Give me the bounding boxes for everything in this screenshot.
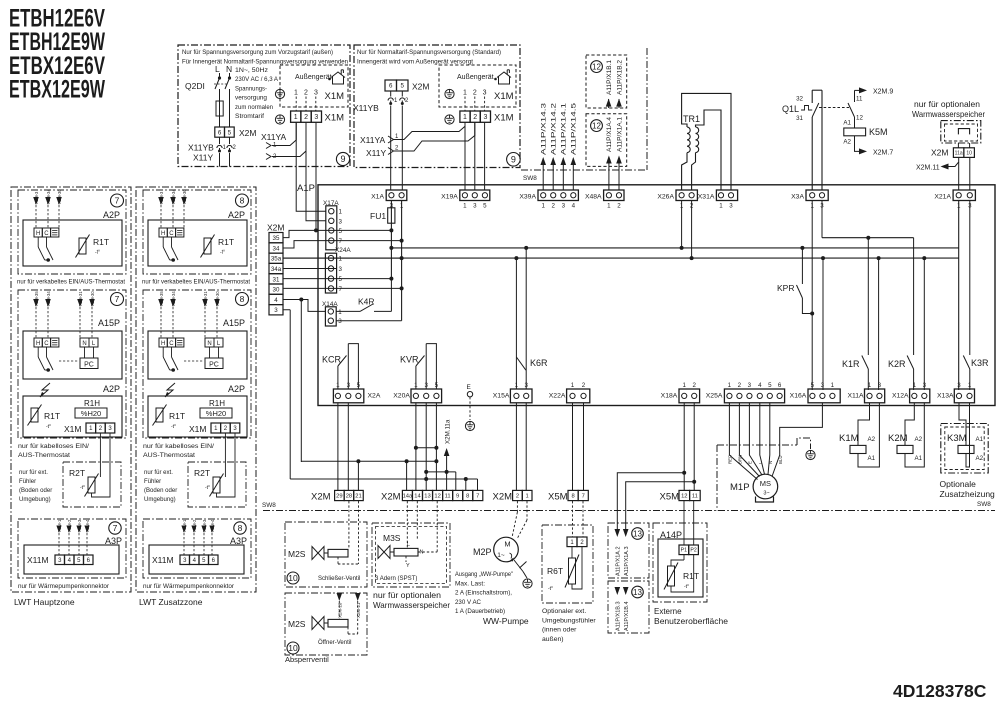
svg-text:3: 3: [314, 114, 318, 121]
svg-text:Nur für Spannungsversorgung zu: Nur für Spannungsversorgung zum Vorzugst…: [182, 49, 333, 56]
svg-text:Außengerät: Außengerät: [295, 74, 332, 81]
svg-text:-t°: -t°: [684, 584, 689, 590]
svg-text:35a: 35a: [271, 256, 282, 263]
svg-text:ETBX12E9W: ETBX12E9W: [9, 76, 105, 104]
svg-text:11: 11: [445, 494, 451, 500]
svg-text:A1: A1: [868, 455, 876, 462]
svg-text:PC: PC: [209, 362, 219, 369]
svg-text:R1T: R1T: [683, 571, 699, 581]
svg-text:C: C: [44, 231, 49, 237]
svg-text:A2P: A2P: [228, 384, 245, 394]
svg-text:A2: A2: [976, 455, 984, 462]
svg-text:X15A: X15A: [493, 393, 510, 400]
svg-text:13: 13: [424, 494, 430, 500]
svg-text:9: 9: [511, 155, 516, 165]
svg-text:K1R: K1R: [842, 359, 860, 369]
svg-text:R1T: R1T: [218, 237, 234, 247]
svg-text:X2M-3: X2M-3: [34, 191, 39, 204]
svg-text:(Boden oder: (Boden oder: [144, 488, 177, 494]
svg-text:A2P: A2P: [103, 210, 120, 220]
svg-text:X11YB: X11YB: [188, 143, 214, 153]
svg-text:A2: A2: [868, 436, 876, 443]
svg-text:11: 11: [692, 494, 698, 500]
svg-text:4: 4: [274, 297, 278, 304]
svg-text:A11P/X1A.1: A11P/X1A.1: [616, 116, 623, 152]
svg-text:%H20: %H20: [81, 409, 101, 418]
svg-text:3: 3: [347, 382, 351, 389]
svg-text:7: 7: [476, 494, 479, 500]
svg-text:X26A: X26A: [657, 194, 674, 201]
svg-text:2: 2: [516, 494, 519, 500]
svg-text:%H20: %H20: [206, 409, 226, 418]
svg-text:N: N: [207, 341, 211, 347]
svg-text:1: 1: [515, 382, 519, 389]
svg-text:230V AC / 6,3 A: 230V AC / 6,3 A: [235, 76, 279, 83]
svg-text:28: 28: [346, 494, 352, 500]
svg-text:-t°: -t°: [220, 250, 225, 256]
svg-text:Max. Last:: Max. Last:: [455, 580, 485, 587]
svg-text:A15P: A15P: [223, 318, 245, 328]
svg-text:A11P/X14.2: A11P/X14.2: [551, 102, 558, 155]
svg-text:34: 34: [273, 245, 280, 252]
svg-text:X20A: X20A: [393, 393, 410, 400]
svg-text:8: 8: [240, 294, 245, 304]
svg-text:Warmwasserspeicher: Warmwasserspeicher: [373, 600, 450, 610]
svg-text:KVR: KVR: [400, 355, 419, 365]
svg-text:X19A: X19A: [441, 194, 458, 201]
svg-text:BLU: BLU: [778, 455, 783, 464]
svg-text:X2M-30: X2M-30: [90, 291, 95, 306]
svg-text:R1T: R1T: [44, 411, 60, 421]
svg-text:K1M: K1M: [839, 433, 859, 444]
svg-text:3: 3: [878, 382, 882, 389]
svg-text:7: 7: [339, 238, 343, 245]
svg-text:H: H: [161, 341, 165, 347]
svg-text:31: 31: [796, 115, 803, 122]
svg-text:R1T: R1T: [169, 411, 185, 421]
svg-text:nur für Wärmepumpenkonnektor: nur für Wärmepumpenkonnektor: [18, 584, 109, 590]
svg-text:1 A (Dauerbetrieb): 1 A (Dauerbetrieb): [455, 608, 505, 615]
svg-text:N: N: [82, 341, 86, 347]
svg-text:X1M: X1M: [494, 91, 514, 102]
svg-text:13: 13: [633, 529, 642, 538]
svg-text:12: 12: [434, 494, 440, 500]
svg-text:4: 4: [572, 203, 576, 210]
svg-text:M: M: [504, 540, 510, 549]
svg-text:10: 10: [288, 643, 298, 653]
svg-text:12: 12: [592, 62, 601, 71]
svg-text:3: 3: [483, 90, 487, 97]
svg-text:1: 1: [339, 256, 343, 263]
svg-text:3: 3: [729, 203, 733, 210]
svg-text:2: 2: [304, 114, 308, 121]
svg-text:X1M: X1M: [325, 91, 345, 102]
svg-text:6: 6: [778, 382, 782, 389]
svg-text:R2T: R2T: [194, 468, 210, 478]
svg-text:X2M-30: X2M-30: [57, 189, 62, 204]
svg-text:X2M-1: X2M-1: [57, 519, 62, 532]
svg-text:X11YB: X11YB: [353, 103, 379, 113]
svg-text:X2M: X2M: [412, 82, 429, 92]
svg-text:2: 2: [473, 114, 477, 121]
svg-text:X2M-3: X2M-3: [77, 519, 82, 532]
svg-text:X2M: X2M: [931, 148, 948, 158]
svg-text:nur für verkabeltes EIN/AUS-Th: nur für verkabeltes EIN/AUS-Thermostat: [142, 280, 250, 286]
svg-text:2 A (Einschaltstrom),: 2 A (Einschaltstrom),: [455, 590, 512, 597]
svg-text:R1T: R1T: [93, 237, 109, 247]
svg-text:X2M-1: X2M-1: [182, 519, 187, 532]
svg-text:A11P/X1A.3: A11P/X1A.3: [624, 546, 630, 576]
svg-text:5: 5: [768, 382, 772, 389]
svg-text:8: 8: [240, 196, 245, 206]
svg-text:X21A: X21A: [934, 194, 951, 201]
svg-text:1: 1: [968, 382, 972, 389]
svg-text:versorgung: versorgung: [235, 95, 267, 102]
svg-text:nur für ext.: nur für ext.: [19, 470, 48, 476]
svg-text:X16A: X16A: [790, 393, 807, 400]
svg-text:A11P/X1B.2: A11P/X1B.2: [616, 59, 623, 95]
svg-text:X1M: X1M: [494, 113, 514, 124]
svg-text:1: 1: [526, 494, 529, 500]
svg-text:Absperrventil: Absperrventil: [285, 655, 329, 664]
svg-text:X3A: X3A: [791, 194, 804, 201]
svg-text:14a: 14a: [403, 494, 413, 500]
svg-text:E: E: [748, 461, 753, 464]
svg-text:Umgebung): Umgebung): [19, 497, 51, 503]
svg-text:1~: 1~: [497, 552, 505, 559]
svg-text:nur für optionalen: nur für optionalen: [914, 99, 980, 109]
svg-text:X2M.7: X2M.7: [873, 150, 893, 157]
svg-text:Schließer-Ventil: Schließer-Ventil: [318, 576, 360, 582]
svg-text:M3S: M3S: [383, 533, 401, 543]
svg-text:1: 1: [463, 203, 467, 210]
svg-text:1: 1: [414, 382, 418, 389]
svg-text:3: 3: [314, 90, 318, 97]
svg-text:1: 1: [831, 382, 835, 389]
svg-text:7: 7: [115, 294, 120, 304]
svg-text:X2A: X2A: [368, 393, 381, 400]
svg-text:X11YA: X11YA: [261, 132, 287, 142]
svg-text:A11P/X1B.4: A11P/X1B.4: [624, 601, 630, 631]
svg-text:3 Adern (SPST): 3 Adern (SPST): [375, 576, 417, 582]
svg-text:Umgebungsfühler: Umgebungsfühler: [542, 617, 596, 624]
svg-text:X1M: X1M: [325, 113, 345, 124]
svg-text:R1H: R1H: [209, 399, 225, 408]
svg-text:1: 1: [339, 209, 343, 216]
svg-text:A2: A2: [843, 139, 851, 146]
svg-text:K6R: K6R: [530, 358, 548, 368]
svg-text:nur für kabelloses EIN/: nur für kabelloses EIN/: [143, 444, 214, 450]
svg-text:A1: A1: [915, 455, 923, 462]
svg-text:X11M: X11M: [27, 555, 49, 565]
svg-text:nur für ext.: nur für ext.: [144, 470, 173, 476]
svg-text:2: 2: [738, 382, 742, 389]
svg-text:8: 8: [571, 494, 574, 500]
svg-text:K3M: K3M: [947, 433, 967, 444]
svg-text:RED: RED: [728, 455, 733, 464]
svg-text:2: 2: [304, 90, 308, 97]
svg-text:Ausgang „WW-Pumpe": Ausgang „WW-Pumpe": [455, 571, 513, 578]
svg-text:P1: P1: [681, 548, 687, 554]
svg-text:Stromtarif: Stromtarif: [235, 113, 264, 120]
svg-text:X2M: X2M: [493, 492, 513, 503]
svg-text:14: 14: [414, 494, 421, 500]
svg-text:X11YA: X11YA: [360, 135, 386, 145]
svg-text:5: 5: [483, 203, 487, 210]
svg-text:X2M-31: X2M-31: [203, 291, 208, 306]
svg-text:Zusatzheizung: Zusatzheizung: [940, 489, 996, 499]
svg-text:H: H: [36, 341, 40, 347]
svg-text:A1: A1: [843, 120, 851, 127]
svg-text:R2T: R2T: [69, 468, 85, 478]
svg-text:Nur für Normaltarif-Spannungsv: Nur für Normaltarif-Spannungsversorgung …: [357, 49, 501, 56]
svg-text:1: 1: [541, 203, 545, 210]
svg-text:5: 5: [339, 228, 343, 235]
svg-text:5: 5: [357, 382, 361, 389]
svg-text:4: 4: [758, 382, 762, 389]
svg-text:N: N: [226, 64, 232, 74]
svg-text:-t°: -t°: [205, 485, 210, 491]
svg-text:Spannungs-: Spannungs-: [235, 85, 267, 92]
svg-text:3: 3: [562, 203, 566, 210]
svg-text:X2M-31: X2M-31: [78, 291, 83, 306]
svg-text:X2M-3: X2M-3: [159, 191, 164, 204]
svg-text:nur für Wärmepumpenkonnektor: nur für Wärmepumpenkonnektor: [143, 584, 234, 590]
svg-text:8: 8: [466, 494, 469, 500]
svg-text:X31A: X31A: [698, 194, 715, 201]
svg-text:2: 2: [551, 203, 555, 210]
svg-text:X2M-2: X2M-2: [192, 519, 197, 532]
svg-text:X2M-21: X2M-21: [356, 602, 361, 618]
svg-text:Innengerät wird vom Außengerät: Innengerät wird vom Außengerät versorgt: [357, 59, 473, 66]
svg-text:1: 1: [336, 382, 340, 389]
svg-text:X2M: X2M: [311, 492, 331, 503]
svg-text:30: 30: [273, 287, 280, 294]
svg-text:P2: P2: [690, 548, 696, 554]
svg-text:N: N: [768, 461, 773, 464]
svg-text:X5M: X5M: [548, 492, 568, 503]
svg-text:Für Innengerät Normaltarif-Spa: Für Innengerät Normaltarif-Spannungsvers…: [182, 59, 348, 66]
svg-text:12: 12: [856, 115, 863, 122]
svg-text:KPR: KPR: [777, 283, 794, 293]
svg-text:X5M: X5M: [660, 492, 680, 503]
svg-text:5: 5: [228, 129, 232, 136]
svg-text:230 V AC: 230 V AC: [455, 599, 482, 606]
svg-text:X2M-28: X2M-28: [338, 602, 343, 618]
svg-text:12: 12: [592, 121, 601, 130]
svg-text:7: 7: [113, 523, 118, 533]
svg-text:1: 1: [338, 309, 342, 316]
svg-text:3: 3: [483, 114, 487, 121]
svg-text:-t°: -t°: [95, 250, 100, 256]
svg-text:-t°: -t°: [171, 424, 176, 430]
svg-text:TR1: TR1: [683, 114, 700, 124]
svg-text:KCR: KCR: [322, 355, 342, 365]
svg-text:1: 1: [607, 203, 611, 210]
svg-text:X11Y: X11Y: [366, 148, 386, 158]
svg-text:SW8: SW8: [523, 175, 537, 182]
svg-text:H: H: [36, 231, 40, 237]
svg-text:3: 3: [339, 218, 343, 225]
svg-text:E: E: [467, 384, 471, 391]
svg-text:X12A: X12A: [892, 393, 909, 400]
svg-text:11: 11: [856, 96, 863, 103]
svg-text:3: 3: [524, 382, 528, 389]
svg-text:K3R: K3R: [971, 358, 989, 368]
svg-text:1: 1: [682, 382, 686, 389]
svg-text:Externe: Externe: [654, 607, 682, 616]
svg-text:1: 1: [868, 382, 872, 389]
svg-text:A2: A2: [915, 436, 923, 443]
svg-text:SW8: SW8: [977, 501, 991, 508]
svg-text:X11Y: X11Y: [193, 153, 213, 163]
svg-text:4D128378C: 4D128378C: [893, 681, 987, 701]
svg-text:5: 5: [435, 382, 439, 389]
svg-text:M2P: M2P: [473, 547, 492, 557]
svg-text:3: 3: [473, 203, 477, 210]
svg-text:3~: 3~: [763, 491, 769, 497]
svg-text:LWT Zusatzzone: LWT Zusatzzone: [139, 597, 203, 607]
svg-text:A11P/X14.5: A11P/X14.5: [571, 102, 578, 155]
svg-text:C: C: [169, 341, 174, 347]
svg-text:29: 29: [336, 494, 342, 500]
svg-text:X2M-35: X2M-35: [34, 291, 39, 306]
svg-text:H: H: [161, 231, 165, 237]
svg-text:A2P: A2P: [103, 384, 120, 394]
svg-text:-t°: -t°: [46, 424, 51, 430]
svg-text:M1P: M1P: [730, 482, 750, 493]
svg-text:A11P/X1A.4: A11P/X1A.4: [606, 116, 613, 152]
svg-text:3: 3: [821, 382, 825, 389]
svg-text:X2M-3: X2M-3: [202, 519, 207, 532]
svg-text:1: 1: [294, 114, 298, 121]
svg-text:K2R: K2R: [888, 359, 906, 369]
svg-text:X2M-35: X2M-35: [159, 291, 164, 306]
svg-text:L: L: [215, 64, 220, 74]
svg-text:A11P/X1B.3: A11P/X1B.3: [616, 601, 622, 631]
svg-text:8: 8: [238, 523, 243, 533]
svg-text:5: 5: [401, 83, 405, 90]
svg-text:Umgebung): Umgebung): [144, 497, 176, 503]
svg-text:10: 10: [966, 150, 972, 156]
svg-text:A1: A1: [976, 436, 984, 443]
svg-text:6: 6: [218, 129, 222, 136]
svg-text:A2P: A2P: [228, 210, 245, 220]
svg-text:Optionaler ext.: Optionaler ext.: [542, 608, 586, 615]
svg-text:Q2DI: Q2DI: [185, 81, 205, 91]
svg-text:außen): außen): [542, 636, 564, 643]
svg-text:X2M-30: X2M-30: [215, 291, 220, 306]
svg-text:X39A: X39A: [519, 194, 536, 201]
svg-text:nur für verkabeltes EIN/AUS-Th: nur für verkabeltes EIN/AUS-Thermostat: [17, 280, 125, 286]
svg-text:2: 2: [692, 382, 696, 389]
svg-text:X1A: X1A: [371, 194, 384, 201]
svg-text:X11M: X11M: [152, 555, 174, 565]
svg-text:3: 3: [748, 382, 752, 389]
svg-text:2: 2: [582, 382, 586, 389]
svg-text:Warmwasserspeicher: Warmwasserspeicher: [912, 109, 985, 119]
svg-text:5: 5: [339, 276, 343, 283]
svg-text:7: 7: [582, 494, 585, 500]
svg-text:X24A: X24A: [335, 247, 351, 254]
svg-text:32: 32: [796, 96, 803, 103]
svg-text:9: 9: [456, 494, 459, 500]
svg-text:nur für kabelloses EIN/: nur für kabelloses EIN/: [18, 444, 89, 450]
svg-text:-t°: -t°: [80, 485, 85, 491]
svg-text:SW8: SW8: [262, 502, 276, 509]
svg-text:Optionale: Optionale: [940, 479, 977, 489]
svg-text:35: 35: [273, 235, 280, 242]
svg-text:C: C: [169, 231, 174, 237]
svg-text:3: 3: [923, 382, 927, 389]
svg-text:12: 12: [681, 494, 687, 500]
svg-text:R6T: R6T: [547, 566, 563, 576]
svg-text:9: 9: [340, 154, 345, 164]
svg-text:MS: MS: [760, 479, 771, 488]
svg-text:X2M-4: X2M-4: [210, 519, 215, 532]
svg-text:X18A: X18A: [661, 393, 678, 400]
svg-text:WW-Pumpe: WW-Pumpe: [483, 616, 529, 626]
svg-text:X2M-30: X2M-30: [182, 189, 187, 204]
svg-text:1: 1: [294, 90, 298, 97]
svg-text:X2M.11: X2M.11: [916, 165, 940, 172]
svg-text:AUS-Thermostat: AUS-Thermostat: [143, 453, 195, 459]
svg-text:BRN: BRN: [738, 455, 743, 464]
svg-text:Öffner-Ventil: Öffner-Ventil: [318, 639, 352, 646]
svg-text:A11P/X1A.2: A11P/X1A.2: [616, 546, 622, 576]
svg-text:zum normalen: zum normalen: [235, 104, 273, 111]
svg-text:X2M: X2M: [267, 223, 284, 233]
svg-text:7: 7: [339, 286, 343, 293]
svg-text:X2M-2: X2M-2: [67, 519, 72, 532]
svg-text:6: 6: [389, 83, 393, 90]
svg-text:X2M: X2M: [239, 128, 256, 138]
svg-text:1: 1: [719, 203, 723, 210]
svg-text:Benutzeroberfläche: Benutzeroberfläche: [654, 617, 729, 626]
svg-text:1: 1: [728, 382, 732, 389]
svg-text:A11P/X14.3: A11P/X14.3: [541, 102, 548, 155]
svg-text:Y: Y: [406, 563, 410, 569]
svg-text:1N~, 50Hz: 1N~, 50Hz: [235, 67, 268, 74]
svg-text:X1M: X1M: [64, 424, 81, 434]
svg-text:Fühler: Fühler: [19, 479, 36, 485]
svg-text:FU1: FU1: [370, 211, 386, 221]
svg-text:A15P: A15P: [98, 318, 120, 328]
svg-text:X48A: X48A: [585, 194, 602, 201]
svg-text:AUS-Thermostat: AUS-Thermostat: [18, 453, 70, 459]
svg-text:31: 31: [273, 276, 280, 283]
svg-text:1: 1: [571, 382, 575, 389]
svg-text:Q1L: Q1L: [782, 104, 799, 114]
svg-text:21: 21: [355, 494, 361, 500]
svg-text:X2M-34: X2M-34: [171, 189, 176, 204]
svg-text:Fühler: Fühler: [144, 479, 161, 485]
svg-text:13: 13: [633, 588, 642, 597]
svg-text:-t°: -t°: [548, 586, 553, 592]
svg-text:3: 3: [338, 318, 342, 325]
svg-text:K5M: K5M: [869, 127, 888, 137]
svg-text:A11P/X14.1: A11P/X14.1: [561, 102, 568, 155]
svg-text:10: 10: [288, 573, 298, 583]
svg-text:X1M: X1M: [189, 424, 206, 434]
svg-text:(Boden oder: (Boden oder: [19, 488, 52, 494]
svg-text:3: 3: [957, 382, 961, 389]
svg-text:3: 3: [274, 307, 278, 314]
svg-text:X2M.11a: X2M.11a: [444, 419, 451, 444]
svg-text:Außengerät: Außengerät: [457, 74, 494, 81]
svg-text:PC: PC: [84, 362, 94, 369]
svg-text:N: N: [420, 550, 424, 556]
